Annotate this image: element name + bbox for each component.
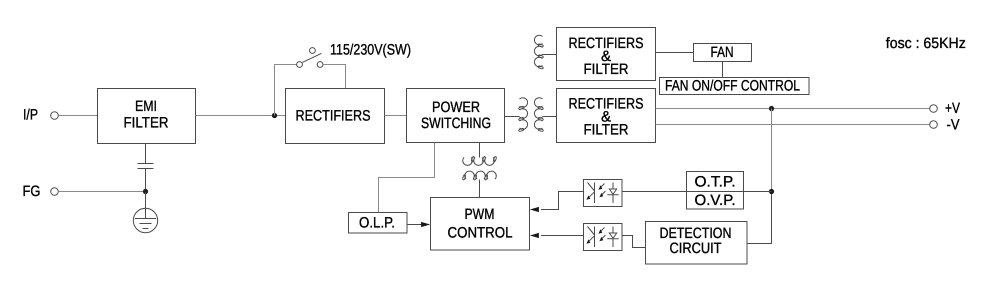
node junction OVP sense: [769, 189, 774, 194]
OTP/OVP box: [687, 172, 744, 210]
wire RECTIFIERS to POWER SWITCHING: [385, 115, 407, 117]
wire junction to earth: [145, 192, 147, 219]
switch SW right contact: [317, 62, 323, 68]
wire power switching to OLP: [379, 143, 435, 213]
rectifiers box: [286, 89, 385, 144]
transformer T1 secondary winding: [534, 98, 543, 132]
svg-text:FILTER: FILTER: [584, 122, 629, 139]
fan on/off control box: [660, 78, 810, 95]
transformer T1 auxiliary winding: [534, 35, 543, 69]
transformer T2 drive secondary: [462, 171, 496, 180]
svg-text:I/P: I/P: [23, 107, 38, 124]
power switching box: [407, 89, 505, 143]
fan box: [694, 44, 752, 62]
ground earth symbol: [133, 208, 157, 232]
node junction input: [272, 113, 277, 118]
node FG terminal: [51, 188, 59, 196]
svg-text:O.V.P.: O.V.P.: [695, 192, 736, 209]
svg-text:SWITCHING: SWITCHING: [421, 115, 491, 132]
node -V terminal: [930, 121, 938, 129]
OTP/OVP divider: [687, 191, 744, 193]
wire I/P to EMI FILTER: [58, 115, 97, 117]
wire FAN to FAN ON/OFF CONTROL: [722, 61, 724, 78]
svg-text:RECTIFIERS: RECTIFIERS: [296, 108, 371, 125]
svg-text:-V: -V: [947, 117, 960, 134]
svg-text:FAN: FAN: [711, 44, 734, 61]
svg-text:FAN ON/OFF CONTROL: FAN ON/OFF CONTROL: [665, 78, 800, 95]
transformer T2 drive primary: [463, 156, 497, 165]
switch SW upper contact: [310, 48, 316, 54]
wire power switching to drive transformer: [479, 143, 481, 158]
node I/P terminal: [51, 112, 59, 120]
main rectifiers & filter box: [557, 89, 656, 143]
wire opto2 to PWM: [541, 235, 584, 237]
svg-text:O.L.P.: O.L.P.: [359, 215, 395, 232]
wire aux winding to top rectifiers&filter: [543, 54, 557, 56]
svg-text:FG: FG: [23, 183, 41, 200]
capacitor Y-cap plates: [138, 164, 154, 169]
capacitor leg from EMI FILTER: [145, 144, 147, 164]
switch SW lever: [302, 53, 321, 62]
ground earth bars: [135, 219, 156, 229]
optocoupler U1 LED: [607, 183, 618, 204]
wire FG to junction: [58, 191, 145, 193]
wire sense vertical: [771, 109, 773, 192]
svg-text:POWER: POWER: [432, 99, 480, 116]
svg-text:CIRCUIT: CIRCUIT: [670, 240, 722, 257]
svg-text:fosc : 65KHz: fosc : 65KHz: [886, 35, 966, 52]
node junction FG: [143, 189, 148, 194]
wire opto1 to OTP/OVP: [622, 191, 686, 193]
OLP box: [349, 213, 408, 234]
svg-text:+V: +V: [945, 100, 960, 117]
wire OLP to PWM: [407, 224, 422, 226]
optocoupler U1 light arrows: [600, 184, 606, 196]
top rectifiers & filter box: [557, 28, 656, 81]
EMI filter box: [98, 89, 196, 144]
wire top R&F to FAN: [656, 52, 694, 54]
node +V terminal: [930, 105, 938, 113]
capacitor leg to FG wire: [145, 169, 147, 192]
svg-text:EMI: EMI: [135, 98, 157, 115]
PWM control box: [431, 198, 530, 251]
svg-text:FILTER: FILTER: [124, 115, 169, 132]
optocoupler U1 box: [584, 180, 623, 207]
svg-text:CONTROL: CONTROL: [448, 225, 513, 242]
transformer T1 primary winding: [518, 98, 527, 132]
optocoupler U2 light arrows: [600, 228, 606, 240]
detection circuit box: [646, 222, 748, 265]
svg-text:O.T.P.: O.T.P.: [695, 173, 736, 190]
svg-text:FILTER: FILTER: [584, 61, 629, 78]
svg-text:PWM: PWM: [465, 206, 495, 223]
wire opto2 to detection circuit: [622, 236, 645, 248]
node junction +V sense: [769, 106, 774, 111]
wire POWER SWITCHING to transformer primary: [505, 116, 520, 118]
switch SW left contact: [297, 62, 303, 68]
optocoupler U1 phototransistor: [588, 183, 595, 204]
optocoupler U2 box: [584, 224, 623, 251]
wire +V output: [656, 108, 930, 110]
wire opto1 to PWM: [541, 192, 584, 210]
svg-text:115/230V(SW): 115/230V(SW): [330, 42, 411, 59]
wire switch to RECTIFIERS top: [323, 65, 346, 89]
optocoupler U2 LED: [607, 227, 618, 248]
wire transformer secondary to rectifiers&filter: [543, 116, 557, 118]
wire EMI FILTER to RECTIFIERS: [196, 115, 286, 117]
wire -V output: [656, 124, 930, 126]
optocoupler U2 phototransistor: [588, 227, 595, 248]
wire drive transformer to PWM: [479, 180, 481, 198]
wire OTP/OVP to sense line: [744, 191, 772, 193]
wire junction up to switch: [275, 65, 297, 116]
